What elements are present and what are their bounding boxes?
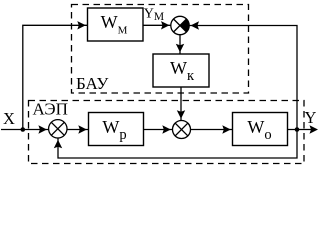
arrow into S3 left bbox=[38, 125, 47, 133]
arrow into Wm bbox=[77, 21, 86, 29]
arrow output Y bbox=[310, 125, 319, 133]
wire feedback top (node up and left into S1) bbox=[189, 26, 297, 130]
svg-text:X: X bbox=[3, 109, 15, 128]
wire Wk down to S4 bbox=[180, 87, 182, 120]
arrow into S1 right (feedback) bbox=[191, 21, 200, 29]
svg-text:АЭП: АЭП bbox=[33, 100, 68, 119]
block Wp bbox=[89, 113, 144, 146]
block Wm bbox=[88, 8, 144, 41]
arrow into Wo bbox=[222, 125, 231, 133]
wire S3 to Wp bbox=[67, 129, 89, 131]
node junction at X branch bbox=[21, 127, 26, 132]
arrow into S1 left bbox=[161, 21, 170, 29]
wire branch up from node to Wm bbox=[23, 25, 88, 129]
block Wo bbox=[233, 113, 288, 146]
svg-text:БАУ: БАУ bbox=[76, 74, 109, 93]
wire Wp to S4 bbox=[144, 129, 173, 131]
wire Wo to output Y bbox=[288, 129, 317, 131]
arrow into Wp bbox=[78, 125, 87, 133]
dashed box BAU bbox=[72, 5, 249, 94]
node junction at output bbox=[295, 127, 300, 132]
summer S4 bbox=[173, 121, 191, 139]
wire feedback bottom (node down, left, up into S3) bbox=[58, 130, 297, 159]
summer S1 bbox=[171, 16, 189, 34]
summer S3 bbox=[49, 120, 67, 138]
wire X input bbox=[1, 129, 49, 131]
arrow into Wk top bbox=[176, 44, 184, 53]
dashed box AEP bbox=[29, 101, 305, 164]
wire S1 down to Wk bbox=[179, 34, 181, 53]
arrow into S4 top bbox=[177, 110, 185, 119]
svg-text:Y: Y bbox=[305, 108, 317, 127]
arrow into S4 left bbox=[162, 125, 171, 133]
wire S4 to Wo bbox=[191, 129, 233, 131]
block Wk bbox=[153, 54, 209, 87]
wire Wm to S1 bbox=[143, 24, 171, 26]
arrow into S3 bottom (feedback) bbox=[54, 140, 62, 149]
